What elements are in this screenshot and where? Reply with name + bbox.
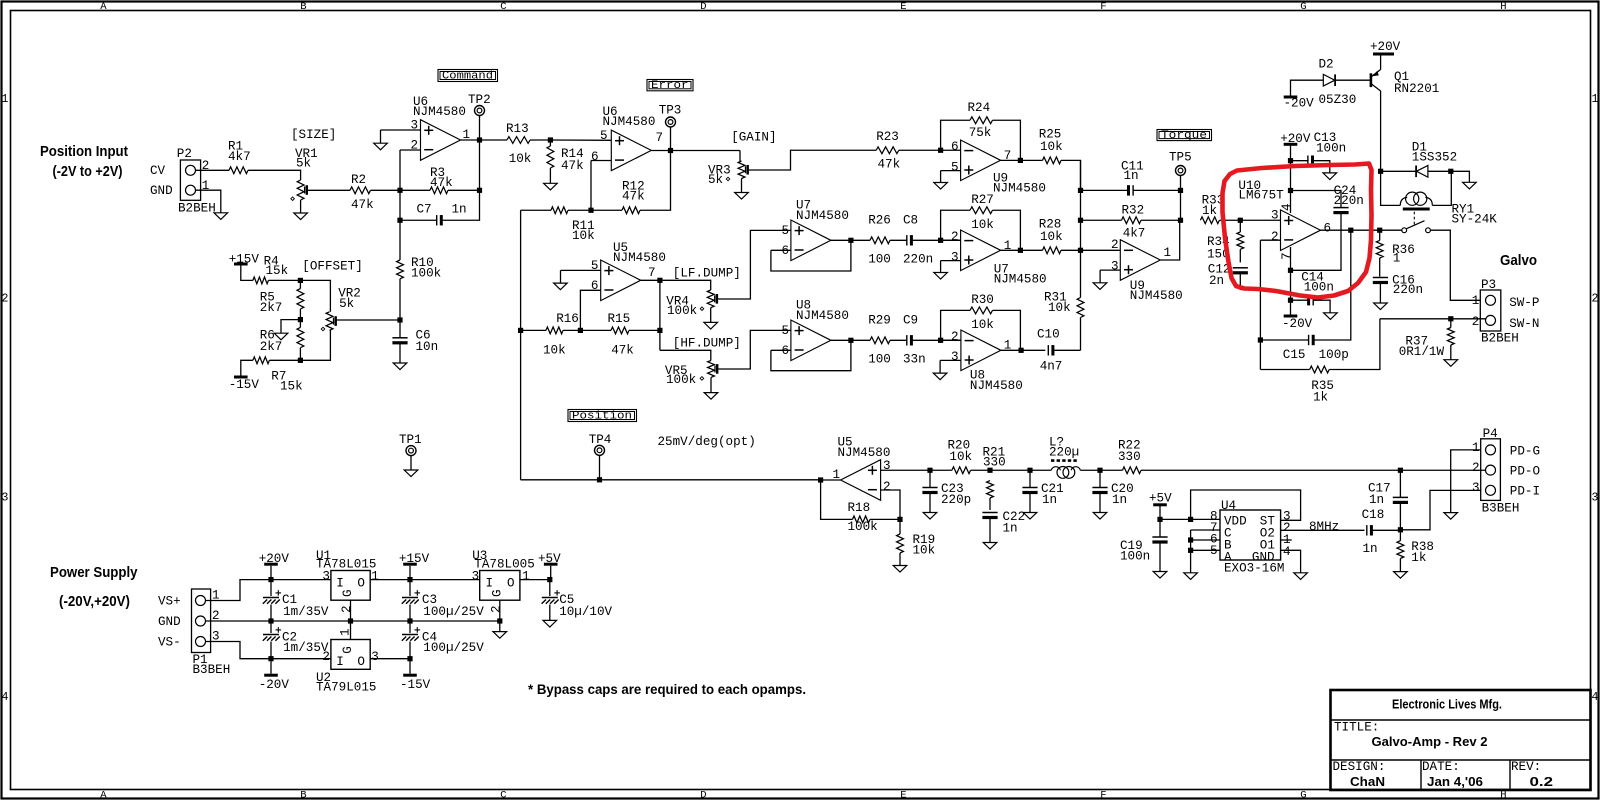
svg-text:O: O xyxy=(507,576,515,590)
node U10 pin7 xyxy=(1288,268,1293,273)
wire R18 left riser xyxy=(821,480,853,519)
U5a labels xyxy=(838,436,891,461)
wire R7 to node xyxy=(269,359,300,361)
wire U2 out to -15V xyxy=(370,658,410,660)
wire U5b out to VR4 xyxy=(660,280,711,290)
svg-text:10k: 10k xyxy=(949,450,972,464)
test point TP4 xyxy=(595,445,605,455)
node C23 xyxy=(927,468,932,473)
node sum R32 xyxy=(1078,218,1083,223)
op-amp U5b xyxy=(601,260,641,301)
wire C2 bottom xyxy=(270,642,272,659)
ground U9b pin3 xyxy=(1093,283,1107,290)
op-amp U8b xyxy=(961,330,1001,371)
wire R6 bottom xyxy=(299,348,301,361)
svg-text:VS-: VS- xyxy=(158,636,181,650)
U2 labels xyxy=(316,671,376,695)
svg-text:10k: 10k xyxy=(913,544,936,558)
GAIN label xyxy=(731,131,776,145)
C17 label xyxy=(1368,482,1391,508)
svg-text:2: 2 xyxy=(411,139,419,153)
op-amp U9a xyxy=(961,140,1001,181)
wire R14 to ground xyxy=(549,168,551,183)
svg-text:7: 7 xyxy=(656,131,664,145)
wire R15 right xyxy=(629,329,660,331)
wire U3 G stem xyxy=(499,600,501,631)
U10 labels xyxy=(1238,179,1284,203)
wire U2 pin1 stem xyxy=(350,621,352,640)
svg-text:1k: 1k xyxy=(1411,551,1426,565)
VR2 label xyxy=(338,287,361,312)
+5V supply U4 xyxy=(1149,492,1172,506)
wire R4 to node xyxy=(268,279,300,281)
wire -15V stem xyxy=(409,659,411,674)
R12 label xyxy=(622,180,645,204)
svg-text:7: 7 xyxy=(648,266,656,280)
ground R5/R6 xyxy=(274,333,288,340)
svg-text:EXO3-16M: EXO3-16M xyxy=(1224,562,1284,576)
resistor R32 xyxy=(1122,217,1142,224)
svg-text:75k: 75k xyxy=(969,126,992,140)
resistor R33 xyxy=(1200,217,1219,224)
potentiometer VR2 xyxy=(321,312,336,331)
node C3 bottom xyxy=(407,618,412,623)
R4 label xyxy=(264,255,289,279)
capacitor C5 electrolytic xyxy=(542,590,560,604)
svg-text:2: 2 xyxy=(490,605,504,613)
svg-text:5: 5 xyxy=(591,259,599,273)
wire U5b pin5 stub xyxy=(561,269,601,271)
wire C21 to L xyxy=(1030,469,1051,471)
node R32/R33 xyxy=(1178,218,1183,223)
svg-text:G: G xyxy=(1300,789,1306,800)
wire U10 output xyxy=(1321,229,1402,231)
wire R16 right xyxy=(563,329,580,331)
svg-text:1: 1 xyxy=(202,179,210,193)
resistor R15 xyxy=(611,327,629,334)
wire U9a pin5 ground xyxy=(940,171,942,183)
wire R35 right xyxy=(1329,319,1380,370)
capacitor C18 xyxy=(1367,525,1372,535)
wire C18 to node xyxy=(1371,529,1400,531)
U2 pin numbers xyxy=(322,628,378,663)
P1 labels xyxy=(193,589,231,678)
U5a pin numbers xyxy=(833,459,891,494)
wire C13 right xyxy=(1313,161,1330,173)
svg-text:SW-P: SW-P xyxy=(1509,296,1539,310)
wire R36 top xyxy=(1379,230,1381,240)
R10 label xyxy=(411,256,441,280)
title block company name xyxy=(1392,697,1502,712)
svg-text:REV:: REV: xyxy=(1511,760,1541,774)
capacitor C7 xyxy=(437,215,442,225)
svg-text:Error: Error xyxy=(651,80,689,92)
wire P2 pin2 to R1 xyxy=(196,169,230,171)
node C14 junction xyxy=(1288,298,1293,303)
node R37 xyxy=(1448,316,1453,321)
wire R11 right xyxy=(568,209,591,211)
error label box xyxy=(647,80,693,93)
C1 label xyxy=(282,593,329,619)
wire C20 bottom xyxy=(1099,493,1101,513)
voltage regulator U1 xyxy=(331,571,370,601)
svg-text:330: 330 xyxy=(983,456,1006,470)
capacitor C10 xyxy=(1048,345,1053,355)
+20V supply Q1 xyxy=(1370,40,1401,54)
U6a labels xyxy=(413,95,466,119)
op-amp U7b xyxy=(961,230,1001,271)
R18 label xyxy=(848,501,878,534)
P3 labels xyxy=(1472,278,1519,346)
wire C4 top xyxy=(409,621,411,633)
svg-text:3: 3 xyxy=(951,350,959,364)
RY1 label xyxy=(1452,203,1498,227)
svg-text:Position: Position xyxy=(572,411,632,423)
svg-text:1: 1 xyxy=(1393,252,1401,266)
svg-text:NJM4580: NJM4580 xyxy=(994,273,1047,287)
-20V supply U10 xyxy=(1282,316,1313,331)
svg-text:1n: 1n xyxy=(1042,493,1057,507)
R27 label xyxy=(971,193,994,232)
wire R22 to P4 xyxy=(1141,469,1486,471)
wire C19 bottom xyxy=(1159,543,1161,572)
svg-text:TP5: TP5 xyxy=(1169,151,1192,165)
wire VR4 wiper to U7a xyxy=(717,230,791,299)
svg-text:[OFFSET]: [OFFSET] xyxy=(302,260,362,274)
node +5V rail xyxy=(547,577,552,582)
capacitor C21 xyxy=(1022,488,1037,493)
transistor Q1 xyxy=(1371,70,1381,92)
node R16/R15/U5b xyxy=(578,328,583,333)
wire R18 right xyxy=(870,518,900,520)
capacitor C13 xyxy=(1308,156,1313,166)
svg-text:10k: 10k xyxy=(971,318,994,332)
svg-text:330: 330 xyxy=(1118,450,1141,464)
svg-text:100k: 100k xyxy=(411,266,441,280)
node C7 left xyxy=(397,218,402,223)
title block DATE label xyxy=(1422,760,1460,774)
wire R20 to R21 xyxy=(971,469,990,471)
wire R27 right riser xyxy=(993,210,1021,250)
wire U7a pin6 feedback xyxy=(771,249,791,251)
svg-text:PD-O: PD-O xyxy=(1510,464,1540,478)
ground C19 xyxy=(1153,572,1167,579)
op-amp U9b xyxy=(1120,240,1160,281)
wire C4 bottom xyxy=(409,642,411,659)
svg-text:220n: 220n xyxy=(903,253,933,267)
wire U7b output xyxy=(1001,249,1043,251)
wire C8 to U7b xyxy=(911,239,960,241)
svg-text:100µ/25V: 100µ/25V xyxy=(423,605,484,619)
capacitor C17 xyxy=(1393,497,1408,502)
resistor R27 xyxy=(970,207,993,214)
wire TP5 column xyxy=(1180,190,1182,220)
svg-text:Position Input: Position Input xyxy=(40,143,128,160)
svg-text:5: 5 xyxy=(600,129,608,143)
U9a labels xyxy=(993,172,1046,196)
wire U6a output xyxy=(461,139,508,141)
U6b labels xyxy=(603,105,656,129)
wire U6a pin3 stub xyxy=(381,129,421,131)
node TP4 rail xyxy=(597,477,602,482)
svg-text:220p: 220p xyxy=(941,493,971,507)
wire U9b pin3 ground xyxy=(1099,270,1101,283)
node R13/R14/U6b xyxy=(548,137,553,142)
C20 label xyxy=(1111,482,1134,507)
potentiometer VR4 xyxy=(700,290,717,311)
resistor R25 xyxy=(1043,157,1062,164)
C11 label xyxy=(1121,160,1144,184)
wire C13 left xyxy=(1291,160,1308,162)
+20V supply rail xyxy=(259,552,290,566)
capacitor C19 xyxy=(1152,537,1167,542)
P1 signal names xyxy=(158,595,181,650)
wire R38 top xyxy=(1399,530,1401,541)
wire C14 right xyxy=(1313,300,1330,313)
node U10 output C15 xyxy=(1348,228,1353,233)
ground R19 xyxy=(893,566,907,573)
R23 label xyxy=(876,130,900,172)
wire C17 top xyxy=(1399,470,1401,497)
svg-text:100n: 100n xyxy=(1120,550,1150,564)
wire R12 right xyxy=(640,151,671,211)
ground R37 xyxy=(1444,360,1458,367)
R2 label xyxy=(351,173,374,212)
svg-text:5k: 5k xyxy=(339,297,354,311)
svg-text:TP2: TP2 xyxy=(468,93,491,107)
svg-text:10k: 10k xyxy=(1048,301,1071,315)
svg-text:2: 2 xyxy=(2,292,9,305)
ground U4 pin4 xyxy=(1294,573,1308,580)
svg-text:R2: R2 xyxy=(351,173,366,187)
svg-text:2n: 2n xyxy=(1209,274,1224,288)
wire -15V to R7 xyxy=(241,360,253,375)
svg-text:C10: C10 xyxy=(1037,328,1060,342)
-15V supply R7 xyxy=(229,377,260,392)
resistor R10 xyxy=(397,260,404,279)
U6a pin numbers xyxy=(411,119,471,153)
svg-text:+5V: +5V xyxy=(1149,492,1172,506)
node pin6 xyxy=(1188,537,1193,542)
svg-text:-20V: -20V xyxy=(1284,97,1315,111)
node U1 G xyxy=(348,618,353,623)
wire C3 top xyxy=(409,580,411,596)
svg-text:SY-24K: SY-24K xyxy=(1452,213,1498,227)
VR1 label xyxy=(295,147,318,171)
svg-text:G: G xyxy=(1300,1,1306,13)
svg-text:3: 3 xyxy=(1472,481,1480,495)
resistor R2 xyxy=(350,187,371,194)
svg-text:2k7: 2k7 xyxy=(260,340,283,354)
wire U5b pin5 to ground xyxy=(560,270,562,283)
svg-text:10k: 10k xyxy=(1040,230,1063,244)
svg-text:3: 3 xyxy=(2,492,9,505)
C14 label xyxy=(1301,271,1334,295)
node U5b output xyxy=(657,278,662,283)
U4 pin1 stub xyxy=(1281,539,1292,541)
svg-text:-20V: -20V xyxy=(259,678,290,692)
wire U9b pin3 stub xyxy=(1100,269,1120,271)
svg-text:6: 6 xyxy=(782,244,790,258)
wire R6 top xyxy=(299,320,301,328)
position label box xyxy=(568,410,637,423)
svg-text:2: 2 xyxy=(340,605,354,613)
TP3 label xyxy=(659,104,682,118)
svg-text:R30: R30 xyxy=(971,293,994,307)
relay RY1 coil xyxy=(1400,192,1432,209)
svg-text:1k: 1k xyxy=(1313,391,1328,405)
wire C21 top xyxy=(1029,470,1031,487)
resistor R35 xyxy=(1310,366,1330,373)
U3 pin numbers xyxy=(472,570,530,614)
svg-text:C: C xyxy=(500,789,506,800)
svg-text:5: 5 xyxy=(782,324,790,338)
svg-text:RN2201: RN2201 xyxy=(1394,82,1439,96)
svg-text:R32: R32 xyxy=(1122,204,1145,218)
wire C5 top xyxy=(549,580,551,596)
svg-text:D: D xyxy=(700,1,706,13)
wire C7 right xyxy=(441,190,479,220)
svg-text:2: 2 xyxy=(883,480,891,494)
wire U10 pin3 stub xyxy=(1240,219,1280,221)
node U9a pin6 xyxy=(938,148,943,153)
svg-text:10n: 10n xyxy=(416,340,439,354)
P4 signal names xyxy=(1510,444,1540,498)
capacitor C15 xyxy=(1309,335,1314,345)
U5b pin numbers xyxy=(591,259,656,293)
node +5V xyxy=(1157,517,1162,522)
wire R1 to VR1 xyxy=(248,170,301,180)
R28 label xyxy=(1039,218,1063,245)
R7 label xyxy=(271,370,302,394)
R38 label xyxy=(1411,540,1434,565)
svg-text:SW-N: SW-N xyxy=(1509,317,1539,331)
node C17 rail xyxy=(1398,468,1403,473)
wire +15V to R4 xyxy=(241,265,253,280)
C13 label xyxy=(1314,131,1347,155)
svg-text:R13: R13 xyxy=(506,122,529,136)
U7b pin numbers xyxy=(951,230,1011,264)
wire U6a pin3 to ground xyxy=(380,130,382,143)
wire R29 to C9 xyxy=(890,339,907,341)
svg-text:[SIZE]: [SIZE] xyxy=(291,128,336,142)
wire -20V to D2 xyxy=(1291,80,1324,95)
op-amp U6b xyxy=(611,130,651,171)
svg-text:G: G xyxy=(341,646,355,654)
wire L to C20 xyxy=(1080,469,1100,471)
wire TP3 stem xyxy=(670,127,672,150)
svg-text:47k: 47k xyxy=(611,344,634,358)
C6 label xyxy=(416,329,439,355)
wire +20V stem xyxy=(270,566,272,580)
svg-text:220n: 220n xyxy=(1393,283,1423,297)
ground U6a pin3 xyxy=(374,143,388,150)
SIZE label xyxy=(291,128,336,142)
inductor L? xyxy=(1051,461,1080,479)
wire C2 top xyxy=(270,621,272,633)
svg-text:2: 2 xyxy=(1271,230,1279,244)
capacitor C14 xyxy=(1309,295,1314,305)
ground D1 xyxy=(1463,182,1477,189)
svg-text:5: 5 xyxy=(782,224,790,238)
wire R5/R6 node to ground xyxy=(281,320,300,334)
svg-text:NJM4580: NJM4580 xyxy=(613,251,666,265)
node U8a output xyxy=(848,338,853,343)
wire R38 bottom xyxy=(1399,559,1401,572)
wire C17 bottom xyxy=(1399,503,1401,530)
wire R11 left xyxy=(521,209,551,211)
node U6a output xyxy=(477,137,482,142)
node C20 xyxy=(1097,468,1102,473)
svg-text:D2: D2 xyxy=(1319,58,1334,72)
U9a pin numbers xyxy=(951,140,1011,174)
U7a labels xyxy=(796,199,849,224)
node U3 G xyxy=(497,618,502,623)
wire R21 to L xyxy=(990,469,1030,471)
U5b labels xyxy=(613,241,666,265)
+15V supply R4 xyxy=(229,252,260,266)
potentiometer VR5 xyxy=(700,360,717,380)
diode D1 xyxy=(1416,166,1428,178)
wire R24 right riser xyxy=(993,120,1021,160)
title block DESIGN label xyxy=(1333,760,1386,774)
svg-text:I: I xyxy=(486,576,494,590)
resistor R38 xyxy=(1397,541,1404,559)
svg-text:NJM4580: NJM4580 xyxy=(796,209,849,223)
svg-text:2: 2 xyxy=(1472,315,1480,329)
svg-text:33n: 33n xyxy=(903,353,926,367)
node VDD/ST xyxy=(1188,517,1193,522)
wire P1 pin3 to rail xyxy=(206,642,331,659)
bypass caps note xyxy=(528,681,806,697)
node R6/R7/VR2 xyxy=(298,358,303,363)
node C13 xyxy=(1288,158,1293,163)
wire -20V stem xyxy=(1290,300,1292,315)
svg-text:1n: 1n xyxy=(1124,169,1139,183)
ground C6 xyxy=(393,363,407,370)
wire R12 left xyxy=(591,209,622,211)
svg-text:R26: R26 xyxy=(868,214,891,228)
op-amp U6a xyxy=(421,120,461,161)
wire feedback column xyxy=(479,140,481,190)
wire error to position column xyxy=(520,210,522,480)
ground U3 xyxy=(493,632,507,639)
C22 label xyxy=(1003,510,1026,536)
wire U7b pin3 ground xyxy=(940,261,942,273)
svg-text:2k7: 2k7 xyxy=(260,301,283,315)
svg-text:B2BEH: B2BEH xyxy=(1481,332,1519,346)
svg-text:B3BEH: B3BEH xyxy=(1482,502,1520,516)
wire R34 top xyxy=(1239,220,1241,232)
node U8b output xyxy=(1019,348,1024,353)
svg-text:5k: 5k xyxy=(708,173,723,187)
node R2/R3 junction xyxy=(397,188,402,193)
svg-text:220µ: 220µ xyxy=(1049,446,1079,460)
svg-text:B: B xyxy=(300,1,306,13)
resistor R5 xyxy=(297,289,304,309)
svg-text:NJM4580: NJM4580 xyxy=(603,115,656,129)
IC U4 xyxy=(1220,510,1281,560)
position note xyxy=(658,435,756,449)
svg-text:2: 2 xyxy=(951,330,959,344)
svg-text:2: 2 xyxy=(1592,292,1599,305)
svg-text:F: F xyxy=(1100,1,1106,13)
wire R13 to node xyxy=(530,139,550,141)
svg-text:47k: 47k xyxy=(878,158,901,172)
wire C14 left xyxy=(1291,299,1309,301)
R3 label xyxy=(430,166,453,190)
wire VR5 bottom xyxy=(710,377,712,392)
